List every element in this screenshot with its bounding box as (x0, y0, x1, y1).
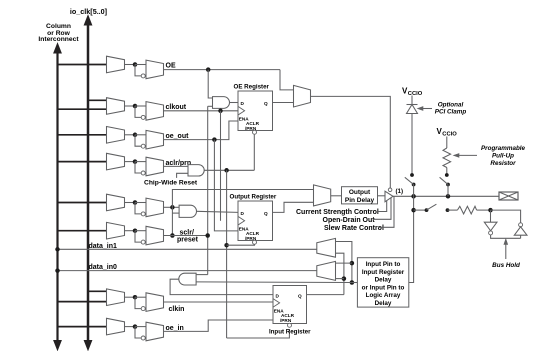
svg-text:CCIO: CCIO (442, 132, 457, 138)
node data_in1 on interconnect (55, 247, 60, 252)
svg-text:Bus Hold: Bus Hold (492, 262, 520, 269)
register Output Register box (238, 201, 273, 241)
wire aclr/prn trap1 output to junction (125, 161, 136, 163)
wire current strength control stub (377, 201, 387, 212)
node aclr branch (224, 168, 229, 173)
wire sclr/preset inverted branch (135, 231, 141, 242)
wire aclr net from U2 (204, 169, 254, 171)
svg-text:oe_out: oe_out (166, 133, 190, 140)
inverter bubble data-out1 (141, 212, 145, 216)
OE Register ACLR/PRN bubble (253, 130, 257, 134)
inverter bubble OE (141, 74, 145, 78)
wire output register Q to bypass mux (273, 202, 314, 212)
wire clkout to OE register clock (164, 110, 239, 112)
svg-text:Input Register: Input Register (269, 328, 311, 335)
wire oe_out trap1 output to junction (125, 134, 136, 136)
wire VCCIO to resistor (446, 137, 448, 149)
diode D1 optional PCI clamp (407, 104, 418, 106)
node oe_in junction (133, 324, 138, 329)
wire oe_in row input from interconnect (58, 326, 107, 328)
mux pair aclr/prn - second trapezoid (programmable inversion) (146, 157, 164, 176)
wire U3 output to output register D (197, 211, 239, 212)
mux pair clkin - first trapezoid (107, 289, 125, 306)
bus interconnect bottom arrow (54, 341, 61, 351)
wire oe_in inverted branch (135, 327, 141, 338)
svg-text:io_clk[5..0]: io_clk[5..0] (70, 7, 107, 16)
node sclr on enable vertical (205, 233, 210, 238)
node sclr/preset junction (133, 228, 138, 233)
wire OE net horizontal (164, 69, 281, 71)
wire clkin row io_clk stub (88, 290, 107, 292)
Output Register clock triangle (238, 216, 245, 225)
switch S2 (pull-up) (445, 173, 449, 177)
svg-text:D: D (241, 211, 245, 216)
svg-text:Interconnect: Interconnect (38, 36, 79, 43)
wire aclr up to OE register ACLR/PRN bubble (253, 135, 255, 171)
wire oe_out row input from interconnect (58, 134, 107, 136)
wire oe_in net (164, 320, 274, 331)
bus io_clk bottom arrow (84, 341, 91, 351)
mux pair data-out1 - first trapezoid (107, 194, 125, 211)
wire clkout vertical to output register clock (220, 111, 222, 221)
svg-text:Output: Output (349, 189, 371, 196)
svg-text:OE Register: OE Register (234, 83, 270, 90)
Input Register clock triangle (273, 299, 280, 308)
mux input delay select B (data_in0) (317, 261, 336, 280)
bus interconnect top arrow (54, 44, 61, 54)
inverter bubble oe_in (141, 336, 145, 340)
wire clkout trap1 output to junction (125, 105, 136, 107)
wire delayed signal vertical (336, 242, 352, 283)
wire clkin direct input to second trapezoid (135, 296, 146, 298)
box Output Pin Delay (342, 187, 378, 204)
wire slew rate stub (378, 196, 394, 227)
wire U6 output to input register D (170, 279, 273, 294)
wire OE inverted branch (135, 65, 141, 76)
or-gate U2 chip-wide reset (188, 165, 204, 176)
register OE Register box (238, 91, 273, 131)
svg-text:aclr/prn: aclr/prn (166, 160, 192, 167)
wire OE direct input to second trapezoid (135, 64, 146, 66)
resistor R2 bus hold (457, 206, 476, 214)
register Input Register box (273, 286, 307, 324)
wire oe_in direct input to second trapezoid (135, 326, 146, 328)
svg-text:Pull-Up: Pull-Up (492, 153, 514, 160)
svg-text:Column: Column (46, 23, 71, 30)
wire chip-wide reset stub (177, 173, 188, 178)
node sclr junction at data-out vertical (170, 233, 175, 238)
svg-text:(1): (1) (396, 188, 404, 195)
svg-text:Slew Rate Control: Slew Rate Control (324, 225, 384, 232)
label Optional PCI Clamp arrow (420, 108, 432, 110)
switch S3 (bus hold) (425, 208, 429, 212)
wire resistor to switch (446, 168, 448, 176)
inverter bubble oe_out (141, 144, 145, 148)
wire open-drain stub (373, 198, 391, 220)
node pull-up branch (446, 194, 451, 199)
svg-text:Logic Array: Logic Array (366, 292, 401, 299)
svg-text:oe_in: oe_in (166, 325, 184, 332)
svg-text:Programmable: Programmable (481, 145, 526, 152)
wire clkout inverted branch (135, 106, 141, 117)
wire clamp diode down to switch (411, 114, 413, 176)
node delayed to mux B (350, 261, 355, 266)
wire OE row input from interconnect (58, 64, 107, 66)
wire data bypass riser (172, 190, 313, 208)
wire input register Q vertical (336, 253, 344, 294)
wire OE trap1 output to junction (125, 64, 136, 66)
wire left inverter feed (490, 210, 492, 222)
wire Q branch to mux B bottom input (336, 278, 344, 280)
svg-text:Input Register: Input Register (362, 269, 405, 276)
wire switch to bus hold resistor (448, 209, 458, 211)
tri-state buffer Q1 (385, 191, 393, 202)
Input Register ACLR/PRN bubble (288, 323, 292, 327)
svg-text:or Input Pin to: or Input Pin to (362, 284, 405, 291)
wire delay box output (352, 282, 358, 284)
node data-out1 junction (133, 200, 138, 205)
wire bus hold loop bottom (491, 235, 521, 238)
wire output buffer to pad (393, 195, 499, 197)
wire delay box to output buffer (378, 195, 386, 197)
wire resistor to bus hold latch (477, 209, 491, 211)
inverter bubble aclr/prn (141, 171, 145, 175)
node OE branch (206, 67, 211, 72)
wire aclr/prn row input from interconnect (58, 161, 107, 163)
svg-text:preset: preset (177, 237, 199, 244)
bus io_clk vertical (87, 22, 90, 344)
wire ena vertical to output register (214, 140, 238, 231)
wire aclr/prn inverted branch (135, 162, 141, 173)
svg-text:/PRN: /PRN (280, 318, 292, 323)
wire OE control to tri-state buffer (311, 96, 391, 188)
wire clkout row input from interconnect (58, 108, 107, 110)
node aclr to output register bubble (224, 243, 229, 248)
switch S1 (clamp) (410, 173, 414, 177)
svg-text:Input Pin to: Input Pin to (366, 261, 401, 268)
wire data-out1 direct input to second trapezoid (135, 202, 146, 204)
wire data-out1 inverted branch (135, 203, 141, 214)
svg-text:Open-Drain Out: Open-Drain Out (323, 217, 376, 224)
wire data-out1 net (164, 206, 180, 208)
wire aclr/prn direct input to second trapezoid (135, 161, 146, 163)
node clkin junction (133, 295, 138, 300)
resistor R1 programmable pull-up (443, 148, 451, 168)
node data_in0 on interconnect (55, 268, 60, 273)
mux OE bypass trapezoid (294, 85, 311, 107)
svg-text:clkout: clkout (166, 104, 187, 111)
svg-text:Q: Q (264, 101, 268, 106)
mux pair sclr/preset - second trapezoid (programmable inversion) (146, 226, 164, 245)
svg-text:PCI Clamp: PCI Clamp (435, 109, 467, 116)
mux pair aclr/prn - first trapezoid (107, 153, 125, 170)
mux pair oe_out - first trapezoid (107, 127, 125, 144)
node bus hold branch (411, 208, 416, 213)
wire bus hold loop top (491, 210, 521, 223)
label Bus Hold arrow (505, 242, 507, 259)
wire oe_in / enable vertical (207, 106, 209, 274)
wire oe_in trap1 output to junction (125, 326, 136, 328)
Output Register ACLR/PRN bubble (253, 240, 257, 244)
wire clkout row io_clk stub (88, 99, 107, 101)
svg-text:Optional: Optional (438, 101, 464, 108)
pad symbol (499, 192, 518, 200)
node clkout branch (218, 109, 223, 114)
wire data-out1 trap1 output to junction (125, 202, 136, 204)
mux output bypass trapezoid (314, 185, 331, 206)
mux pair clkout - second trapezoid (programmable inversion) (146, 102, 164, 121)
svg-text:Resistor: Resistor (490, 160, 516, 167)
wire sclr/preset direct input to second trapezoid (135, 230, 146, 232)
node data-out junction (170, 205, 175, 210)
wire switch to pad line (413, 185, 415, 197)
wire OE to bypass mux top input (280, 70, 294, 90)
wire oe_out inverted branch (135, 135, 141, 146)
wire U6 bottom input from delay box output (196, 281, 352, 284)
wire data-out row input from interconnect (58, 202, 107, 204)
wire aclr/prn to reset gate (164, 165, 189, 167)
wire switch to pad line (447, 185, 449, 197)
inverter bubble sclr/preset (141, 240, 145, 244)
wire delayed to mux B top input (336, 262, 352, 264)
svg-text:Pin Delay: Pin Delay (345, 197, 375, 204)
label Programmable Pull-Up Resistor arrow (456, 154, 477, 156)
wire sclr/preset trap1 output to junction (125, 230, 136, 232)
wire U3 lower input stub (172, 212, 179, 214)
svg-text:D: D (241, 101, 245, 106)
node OE junction (133, 62, 138, 67)
box input pin delay (357, 258, 408, 307)
svg-text:Delay: Delay (375, 300, 392, 307)
wire clkout direct input to second trapezoid (135, 105, 146, 107)
bus io_clk top arrow (84, 16, 91, 26)
node clkout junction (133, 104, 138, 109)
wire OE register Q to bypass mux (273, 102, 294, 104)
wire data_in0 (58, 270, 317, 272)
inverter U5 (bus hold, up) (519, 223, 523, 227)
mux pair oe_in - second trapezoid (programmable inversion) (146, 322, 164, 341)
svg-text:CCIO: CCIO (408, 91, 423, 97)
wire VCCIO to clamp diode (411, 96, 413, 105)
mux pair oe_in - first trapezoid (107, 318, 125, 335)
svg-text:sclr/: sclr/ (180, 229, 194, 236)
wire clkin inverted branch (135, 297, 141, 308)
node delay box output junction (350, 280, 355, 285)
mux pair OE - second trapezoid (programmable inversion) (146, 60, 164, 79)
svg-text:Chip-Wide Reset: Chip-Wide Reset (144, 180, 198, 187)
mux pair sclr/preset - first trapezoid (107, 222, 125, 239)
wire data_in1 (58, 248, 317, 250)
svg-text:Output Register: Output Register (230, 193, 277, 200)
and-gate U3 (output register D input) (179, 205, 196, 217)
mux pair clkin - second trapezoid (programmable inversion) (146, 293, 164, 312)
wire OE branch down to OE-register AND gate (208, 70, 212, 98)
wire U1 output to OE register D (230, 102, 239, 104)
mux pair clkout - first trapezoid (107, 98, 125, 115)
svg-text:Delay: Delay (375, 277, 392, 284)
svg-text:Q: Q (298, 293, 302, 298)
mux pair OE - first trapezoid (107, 56, 125, 73)
inverter U4 (bus hold, down) (484, 222, 497, 231)
node oe_out junction (133, 133, 138, 138)
wire sclr/preset net (164, 235, 208, 237)
wire pad line down to input delay box (409, 196, 414, 282)
svg-text:OE: OE (166, 63, 176, 70)
wire clkin to input register clock (164, 301, 274, 303)
wire oe_out direct input to second trapezoid (135, 134, 146, 136)
wire aclr vertical down (226, 170, 228, 338)
wire bus hold branch (414, 209, 427, 211)
svg-text:Q: Q (264, 211, 268, 216)
node bus hold latch top (488, 208, 493, 213)
wire bypass mux to output pin delay (331, 195, 342, 197)
svg-text:clkin: clkin (169, 306, 185, 313)
wire input register Q horizontal (307, 294, 344, 296)
node aclr/prn junction (133, 159, 138, 164)
bus column/row interconnect vertical (56, 50, 58, 344)
OE Register clock triangle (238, 106, 245, 115)
node Q to mux B (342, 276, 347, 281)
mux pair oe_out - second trapezoid (programmable inversion) (146, 130, 164, 149)
inverter bubble clkin (141, 307, 145, 311)
wire vertical data-out to sclr (171, 207, 173, 235)
svg-text:Current Strength Control: Current Strength Control (296, 209, 379, 216)
buffer OE control bubble (388, 188, 392, 192)
svg-text:D: D (276, 293, 280, 298)
wire clkin row input from interconnect (58, 301, 107, 303)
and-gate U1 (OE register D input) (213, 97, 230, 109)
node oe_out branch to output register ENA (212, 137, 217, 142)
wire oe_out net to OE register ENA (164, 121, 239, 140)
node clamp/input branch (411, 194, 416, 199)
wire aclr to output register ACLR/PRN bubble (227, 243, 255, 246)
wire clkin trap1 output to junction (125, 296, 136, 298)
inverter bubble clkout (141, 115, 145, 119)
wire U1 lower input stub (208, 105, 213, 107)
mux input delay select A (data_in1) (317, 238, 336, 257)
wire U6 top input stub to enable vertical (196, 274, 208, 276)
wire sclr/preset row input from interconnect (58, 230, 107, 232)
wire aclr to input register ACLR/PRN bubble (227, 329, 290, 338)
and-gate U6 (input register D, mirrored) (179, 273, 196, 285)
mux pair data-out1 - second trapezoid (programmable inversion) (146, 198, 164, 217)
